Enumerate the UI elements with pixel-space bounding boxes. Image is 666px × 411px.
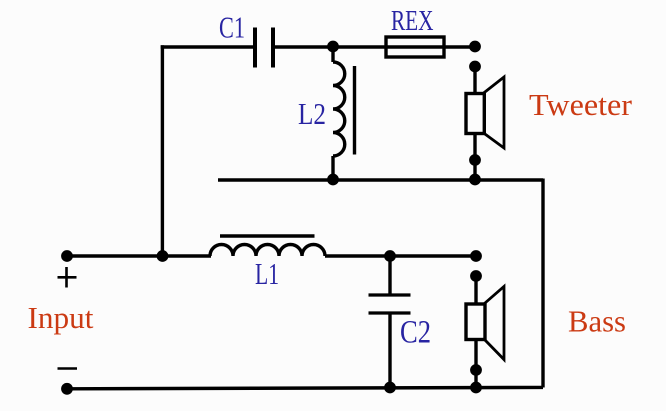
node J (bass branch junction) [470, 250, 482, 262]
wire: tweeter bottom [473, 134, 476, 181]
wire: bass top [474, 276, 477, 305]
inductor L2 (shunt) [333, 47, 355, 181]
node N (C2 bottom on bottom rail) [384, 382, 396, 394]
capacitor C1 [255, 28, 273, 68]
wire: tweeter top [473, 67, 476, 95]
node A (C1/L2/REX junction) [327, 41, 339, 53]
wire: input row to L1 [67, 254, 211, 257]
bass speaker [466, 287, 504, 360]
node I (C2 junction) [384, 250, 396, 262]
tweeter speaker [466, 77, 504, 148]
svg-text:L2: L2 [298, 96, 326, 131]
svg-text:REX: REX [391, 6, 434, 37]
minus sign (input -) [58, 367, 78, 370]
wire: L1 to bass junction [325, 254, 476, 257]
node B (REX output) [469, 41, 481, 53]
node H (left rail junction) [157, 250, 169, 262]
node O (input -) [61, 383, 73, 395]
wire: left vertical rail [161, 45, 164, 256]
wire: right vertical rail [541, 179, 544, 388]
plus sign (input +) [58, 267, 77, 288]
svg-text:C1: C1 [219, 10, 245, 45]
svg-text:Tweeter: Tweeter [529, 87, 633, 122]
node M (bass on bottom rail) [470, 382, 482, 394]
node L (bass bottom terminal) [470, 364, 482, 376]
svg-text:Bass: Bass [568, 304, 626, 339]
capacitor C2 (shunt) [369, 256, 411, 388]
resistor REX [386, 37, 444, 57]
svg-text:C2: C2 [400, 315, 431, 351]
node E (tweeter on middle rail) [469, 174, 481, 186]
wire: C1 to node A [275, 45, 333, 48]
node G (input +) [61, 250, 73, 262]
wire: top rail left segment (left vertical to C1) [161, 45, 253, 48]
inductor L1 (series) [210, 236, 325, 256]
node F (L2 bottom on middle rail) [327, 174, 339, 186]
svg-text:Input: Input [28, 301, 95, 335]
svg-text:L1: L1 [255, 256, 279, 291]
wire: bottom rail [67, 387, 543, 388]
wire: node A through REX to tweeter node [333, 45, 475, 48]
node K (bass top terminal) [470, 270, 482, 282]
node C (tweeter top terminal) [469, 61, 481, 73]
wire: bass bottom [474, 340, 477, 388]
node D (tweeter bottom terminal) [469, 154, 481, 166]
wire: middle rail [218, 178, 543, 181]
